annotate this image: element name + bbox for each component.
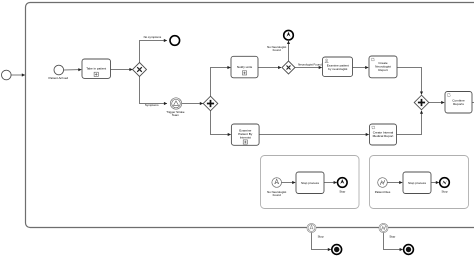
gateway parallel join <box>414 95 429 110</box>
svg-text:Found: Found <box>273 193 282 197</box>
end event escalation Stop <box>338 178 348 194</box>
wire Combine Reports out (clipped at right edge) <box>472 102 474 104</box>
task Create Internal Medical Report (script task) <box>370 124 397 145</box>
wire Take in patient to symptoms gateway <box>111 69 133 71</box>
start event (outer) <box>2 70 12 80</box>
svg-text:Symptoms: Symptoms <box>145 103 159 107</box>
start event Patient Arrived <box>49 65 69 80</box>
svg-text:Found: Found <box>273 48 282 52</box>
task Create Neurologist Report (script task) <box>369 56 397 78</box>
task Stop process (1) <box>296 172 324 194</box>
task Examine Patient By Internist (collapsed subprocess) <box>231 124 259 145</box>
svg-text:Report: Report <box>378 68 387 72</box>
event subprocess No Neurologist Found <box>261 156 360 209</box>
svg-text:Take in patient: Take in patient <box>86 67 106 71</box>
wire Create Internal Medical Report to parallel join (up) <box>397 111 422 135</box>
gateway parallel split <box>203 96 218 111</box>
svg-text:No symptoms: No symptoms <box>144 35 162 39</box>
task Stop process (2) <box>403 172 431 194</box>
wire No symptoms <box>140 35 167 62</box>
svg-text:Medical Report: Medical Report <box>373 134 394 138</box>
wire error start to Stop process 2 <box>387 182 402 184</box>
wire Notify units to neurologist gateway <box>258 67 281 69</box>
svg-text:Stop process: Stop process <box>408 181 427 185</box>
event subprocess Patient Dies <box>370 156 469 209</box>
task Combine Reports (script task) <box>445 92 472 114</box>
gateway exclusive symptoms? <box>133 63 147 77</box>
start event error Patient Dies <box>375 178 391 194</box>
end event No symptoms <box>170 36 180 46</box>
wire Stop process 2 to error end <box>431 182 439 184</box>
task Notify units (collapsed subprocess) <box>231 56 258 78</box>
wire signal to parallel split <box>182 103 203 105</box>
svg-text:Stop: Stop <box>339 190 345 194</box>
svg-text:Stop: Stop <box>442 190 448 194</box>
svg-text:Stop: Stop <box>318 234 324 238</box>
end event escalation No Neurologist Found <box>284 30 294 40</box>
wire Create Neurologist Report to parallel join (down) <box>397 68 422 95</box>
wire to Create Neurologist Report <box>353 67 369 69</box>
boundary event escalation Stop <box>307 223 324 238</box>
end event terminate 2 <box>404 245 414 255</box>
wire gateway to escalation end, label No Neurologist Found <box>267 41 288 61</box>
wire escalation start to Stop process <box>282 182 296 184</box>
svg-text:Patient Arrived: Patient Arrived <box>49 76 69 80</box>
svg-text:Internist: Internist <box>240 135 251 139</box>
wire split to Notify units <box>211 68 231 97</box>
svg-text:Patient Dies: Patient Dies <box>375 190 391 194</box>
wire Symptoms <box>140 77 167 108</box>
boundary event error Stop <box>379 223 396 238</box>
wire Neurologist Found <box>295 63 322 68</box>
svg-text:Reports: Reports <box>453 102 464 106</box>
svg-text:Stop: Stop <box>389 234 395 238</box>
start event escalation No Neurologist Found <box>267 178 286 198</box>
gateway exclusive Neurologist found? <box>282 61 295 74</box>
wire Stop process to escalation end <box>324 182 337 184</box>
wire outer start to subprocess <box>11 74 25 76</box>
wire Examine Patient By Internist to Create Internal Medical Report <box>259 134 369 136</box>
svg-text:Neurologist Found: Neurologist Found <box>298 63 322 67</box>
wire join to Combine Reports <box>429 102 444 104</box>
svg-text:by neurologist: by neurologist <box>328 67 347 71</box>
svg-text:Stop process: Stop process <box>301 181 320 185</box>
wire boundary escalation to terminate 1 <box>312 233 331 250</box>
wire start to Take in patient <box>64 69 82 71</box>
wire boundary error to terminate 2 <box>384 233 403 250</box>
task Examine patient by neurologist (user task) <box>323 57 353 77</box>
svg-text:Notify units: Notify units <box>237 65 253 69</box>
task Take in patient (collapsed subprocess) <box>82 59 111 78</box>
signal event Trigger Stroke Team <box>166 98 185 117</box>
end event terminate 1 <box>332 245 342 255</box>
svg-text:Team: Team <box>172 113 180 117</box>
wire split to Examine Patient By Internist <box>211 111 231 135</box>
end event error Stop <box>440 178 450 194</box>
